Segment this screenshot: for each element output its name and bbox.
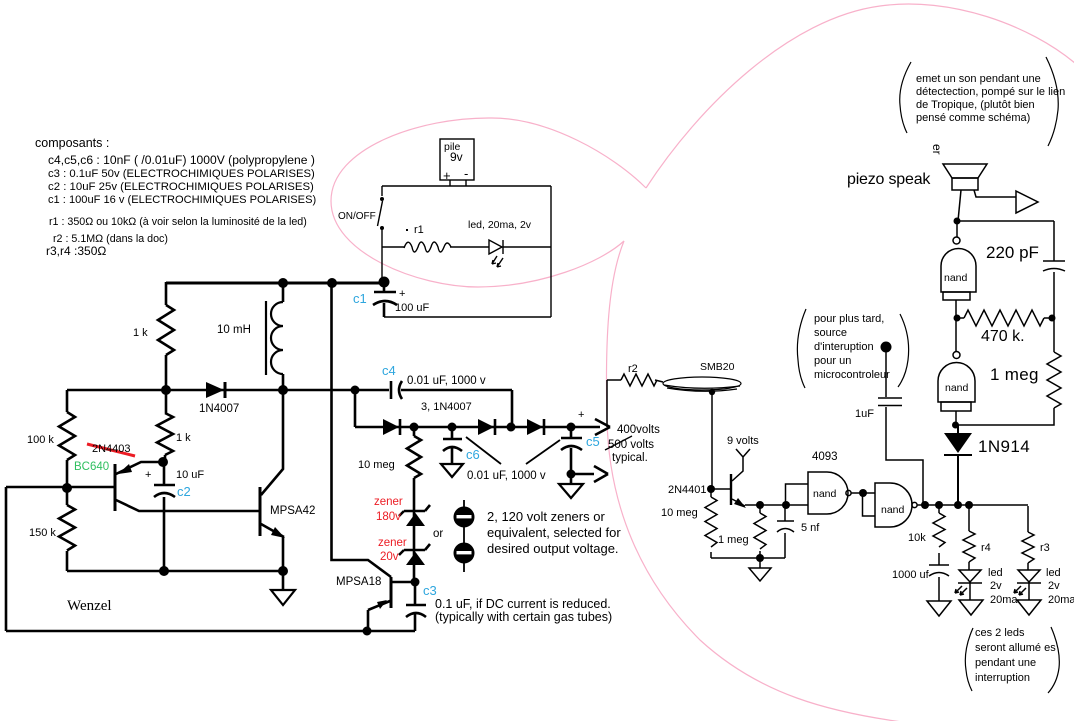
svg-text:150 k: 150 k	[29, 527, 56, 539]
svg-text:1N914: 1N914	[978, 437, 1030, 456]
svg-text:MPSA18: MPSA18	[336, 576, 381, 588]
svg-text:led, 20ma, 2v: led, 20ma, 2v	[468, 219, 532, 231]
svg-text:1 meg: 1 meg	[718, 534, 749, 546]
svg-text:typical.: typical.	[612, 452, 648, 464]
svg-text:4093: 4093	[812, 451, 838, 463]
svg-text:equivalent, selected for: equivalent, selected for	[487, 525, 621, 540]
svg-text:10k: 10k	[908, 532, 926, 544]
svg-text:emet un son pendant une: emet un son pendant une	[916, 73, 1041, 85]
svg-text:ces 2 leds: ces 2 leds	[975, 627, 1025, 639]
svg-text:er: er	[930, 144, 944, 155]
svg-text:1N4007: 1N4007	[199, 403, 239, 415]
svg-text:c5: c5	[586, 434, 600, 449]
svg-text:or: or	[433, 528, 443, 540]
svg-text:détectection, pompé sur le lie: détectection, pompé sur le lien	[916, 86, 1065, 98]
svg-text:nand: nand	[881, 504, 905, 516]
svg-text:seront allumé es: seront allumé es	[975, 642, 1056, 654]
svg-text:2v: 2v	[1048, 580, 1060, 592]
svg-text:MPSA42: MPSA42	[270, 505, 315, 517]
svg-text:1 k: 1 k	[176, 432, 191, 444]
svg-text:r1: r1	[414, 224, 424, 236]
svg-text:0.01 uF, 1000 v: 0.01 uF, 1000 v	[467, 470, 546, 482]
svg-text:interruption: interruption	[975, 672, 1030, 684]
svg-text:10 meg: 10 meg	[358, 459, 395, 471]
svg-text:microcontroleur: microcontroleur	[814, 369, 890, 381]
svg-text:1uF: 1uF	[855, 408, 874, 420]
svg-text:1000 uf: 1000 uf	[892, 569, 930, 581]
svg-text:zener: zener	[378, 537, 407, 549]
svg-text:led: led	[988, 567, 1003, 579]
svg-text:0.1 uF, if DC current is reduc: 0.1 uF, if DC current is reduced.	[435, 597, 611, 611]
svg-text:(typically with certain gas tu: (typically with certain gas tubes)	[435, 610, 612, 624]
svg-text:nand: nand	[813, 488, 837, 500]
svg-text:c4: c4	[382, 363, 396, 378]
svg-text:SMB20: SMB20	[700, 361, 735, 373]
svg-text:2, 120 volt zeners or: 2, 120 volt zeners or	[487, 509, 605, 524]
svg-text:c4,c5,c6 : 10nF ( /0.01uF) 100: c4,c5,c6 : 10nF ( /0.01uF) 1000V (polypr…	[48, 153, 315, 167]
svg-text:pensé comme schéma): pensé comme schéma)	[916, 112, 1030, 124]
svg-text:c3 : 0.1uF 50v (ELECTROCHIMIQ: c3 : 0.1uF 50v (ELECTROCHIMIQUES POLARIS…	[48, 168, 315, 180]
svg-text:c3: c3	[423, 583, 437, 598]
svg-text:desired output voltage.: desired output voltage.	[487, 541, 619, 556]
svg-text:Wenzel: Wenzel	[67, 598, 112, 614]
svg-text:de Tropique, (plutôt bien: de Tropique, (plutôt bien	[916, 99, 1035, 111]
svg-text:pour plus tard,: pour plus tard,	[814, 313, 884, 325]
svg-text:5 nf: 5 nf	[801, 522, 820, 534]
svg-text:400volts: 400volts	[617, 424, 660, 436]
svg-text:BC640: BC640	[74, 461, 109, 473]
svg-text:pour un: pour un	[814, 355, 851, 367]
svg-text:+: +	[145, 469, 151, 481]
svg-text:c6: c6	[466, 447, 480, 462]
svg-text:+: +	[399, 288, 405, 300]
svg-text:zener: zener	[374, 496, 403, 508]
svg-text:c2 : 10uF 25v (ELECTROCHIMIQUE: c2 : 10uF 25v (ELECTROCHIMIQUES POLARISE…	[48, 181, 314, 193]
svg-text:10 meg: 10 meg	[661, 507, 698, 519]
svg-text:source: source	[814, 327, 847, 339]
svg-text:20v: 20v	[380, 551, 399, 563]
svg-text:c2: c2	[177, 484, 191, 499]
svg-text:2N4403: 2N4403	[92, 443, 131, 455]
svg-text:c1 : 100uF 16 v (ELECTROCHIMIQ: c1 : 100uF 16 v (ELECTROCHIMIQUES POLARI…	[48, 194, 316, 206]
svg-text:r1 : 350Ω ou 10kΩ (à voir selo: r1 : 350Ω ou 10kΩ (à voir selon la lumin…	[49, 216, 307, 228]
svg-text:piezo speak: piezo speak	[847, 171, 931, 188]
svg-text:r2: r2	[628, 363, 638, 375]
svg-text:20ma: 20ma	[1048, 594, 1074, 606]
svg-text:0.01 uF, 1000 v: 0.01 uF, 1000 v	[407, 375, 486, 387]
svg-text:ON/OFF: ON/OFF	[338, 211, 376, 222]
svg-text:180v: 180v	[376, 511, 401, 523]
svg-text:10 uF: 10 uF	[176, 469, 204, 481]
svg-text:nand: nand	[944, 272, 968, 284]
svg-text:-: -	[464, 166, 468, 181]
svg-text:r3,r4 :350Ω: r3,r4 :350Ω	[46, 244, 106, 258]
svg-text:20ma: 20ma	[990, 594, 1018, 606]
svg-text:led: led	[1046, 567, 1061, 579]
svg-text:2v: 2v	[990, 580, 1002, 592]
svg-text:r4: r4	[981, 542, 991, 554]
svg-text:nand: nand	[945, 382, 969, 394]
svg-text:9 volts: 9 volts	[727, 435, 759, 447]
svg-text:10 mH: 10 mH	[217, 324, 251, 336]
svg-text:+: +	[443, 168, 451, 183]
svg-text:100 k: 100 k	[27, 434, 54, 446]
svg-text:composants :: composants :	[35, 136, 109, 150]
svg-text:+: +	[578, 409, 584, 421]
svg-text:470 k.: 470 k.	[981, 328, 1025, 345]
svg-text:100 uF: 100 uF	[395, 302, 430, 314]
svg-text:3, 1N4007: 3, 1N4007	[421, 401, 472, 413]
svg-text:2N4401: 2N4401	[668, 484, 707, 496]
svg-text:1 k: 1 k	[133, 327, 148, 339]
svg-text:r3: r3	[1040, 542, 1050, 554]
svg-text:c1: c1	[353, 291, 367, 306]
svg-text:d'interuption: d'interuption	[814, 341, 874, 353]
svg-text:pendant une: pendant une	[975, 657, 1036, 669]
svg-text:9v: 9v	[450, 150, 463, 164]
svg-text:220 pF: 220 pF	[986, 243, 1039, 262]
svg-text:500 volts: 500 volts	[608, 439, 654, 451]
svg-text:1 meg: 1 meg	[990, 365, 1039, 384]
